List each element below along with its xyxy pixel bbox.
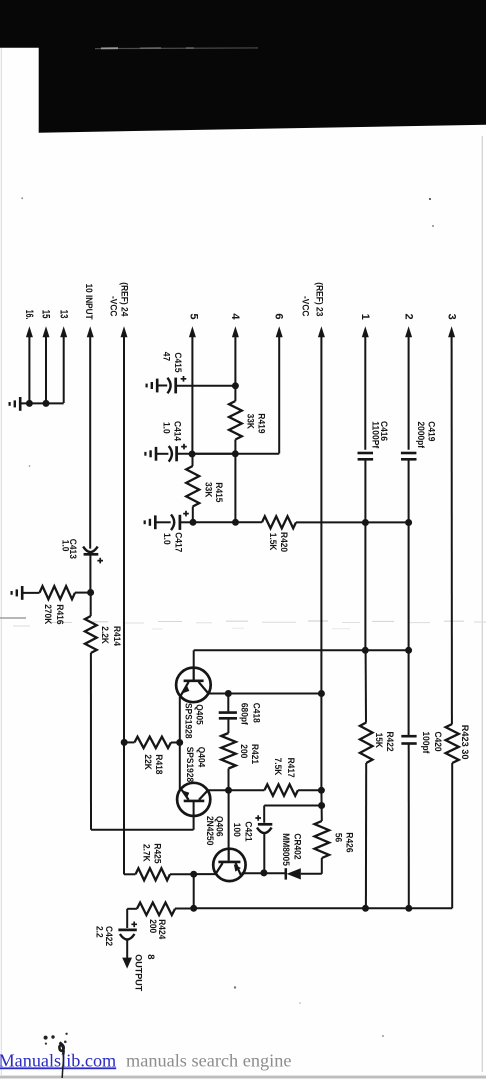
capacitor C419 plate 2 [401, 458, 417, 461]
wire pin4 node down [234, 454, 236, 523]
wire rail mid [320, 694, 322, 791]
junction collector/C418 [225, 690, 232, 697]
svg-text:C415: C415 [172, 352, 183, 373]
C422 plus sign [131, 922, 137, 928]
diode CR402 [285, 868, 288, 879]
transistor Q406 [213, 849, 245, 881]
capacitor C414 curved plate [169, 446, 172, 462]
svg-text:(REF) 24: (REF) 24 [118, 282, 129, 317]
svg-text:C422: C422 [103, 926, 114, 946]
capacitor C417 straight plate [179, 515, 182, 530]
capacitor C422 straight plate [118, 929, 136, 932]
wire to C422 [126, 909, 128, 928]
wire node to R422 [365, 650, 367, 722]
wire to Q404 base [91, 829, 194, 831]
resistor R418 zigzag [135, 737, 172, 748]
wire R425 to collector node [170, 873, 194, 875]
C417 plus sign [183, 511, 189, 517]
resistor R415 zigzag [186, 466, 199, 507]
wire R416 to input node [75, 592, 91, 594]
capacitor C415 curved plate [167, 378, 170, 394]
wire Q405 base lead up [193, 650, 195, 667]
wire pin4 to R419 [234, 386, 236, 401]
svg-text:1.5K: 1.5K [267, 533, 278, 551]
wire to C418 [227, 694, 229, 712]
resistor R414 zigzag [85, 616, 97, 653]
wire R419 to node [234, 440, 236, 454]
pin 15 arrow [43, 326, 50, 337]
capacitor C420 plate 2 [401, 742, 416, 745]
resistor R426 zigzag [315, 821, 330, 858]
junction R421/Q406 base [225, 787, 232, 794]
pin 1 arrow [362, 326, 369, 337]
wire down to C421 [263, 806, 265, 823]
junction rail/R418 [121, 739, 128, 746]
svg-text:C419: C419 [425, 421, 436, 441]
wire to CR402 [264, 872, 285, 874]
wire collector node down [193, 874, 195, 908]
wire C421 to emitter node [263, 832, 265, 873]
wire Q406 base lead [228, 790, 230, 848]
wire bottom rail [194, 907, 453, 909]
junction pin4/pin6/C414 node [232, 450, 239, 457]
junction bottom rail/pin2 line [405, 905, 412, 912]
wire R415 to node [192, 507, 194, 523]
svg-text:C421: C421 [242, 821, 253, 842]
wire node to R420 [193, 521, 262, 523]
svg-text:3: 3 [445, 314, 457, 320]
wire Q406 emitter right [241, 872, 264, 874]
svg-text:2: 2 [402, 314, 414, 320]
wire emitter line to Q404 [179, 743, 181, 791]
wire C422 to output arrow [126, 939, 128, 958]
svg-text:2.2: 2.2 [93, 926, 104, 938]
junction emitter/C421/diode [260, 869, 267, 876]
wire rail to R426 [321, 806, 323, 822]
wire py650 to pins 1,2 [194, 649, 409, 651]
pin 2 arrow [405, 326, 412, 337]
wire rail to C421 node [320, 790, 322, 805]
pin 16 arrow [26, 326, 33, 337]
wire R418 to emitter line [171, 742, 180, 744]
svg-text:10 INPUT: 10 INPUT [83, 284, 94, 320]
junction pin15/ground wire [43, 400, 50, 407]
junction C414/pin5/R415 [189, 451, 196, 458]
svg-text:MM8005: MM8005 [280, 833, 291, 866]
svg-text:-VCC: -VCC [108, 296, 119, 317]
capacitor C421 straight plate [258, 823, 272, 826]
junction pin2/collector wire [405, 647, 412, 654]
capacitor C420 plate 1 [401, 735, 416, 738]
junction R420 wire/pin2 [405, 519, 412, 526]
wire Q405 collector to rail [208, 693, 321, 695]
wire Q406 collector left [194, 873, 216, 875]
capacitor C416 plate 1 [358, 452, 374, 455]
bottom scan edge [0, 1076, 486, 1079]
svg-text:OUTPUT: OUTPUT [132, 954, 143, 991]
svg-text:2000pf: 2000pf [415, 422, 426, 449]
svg-text:33K: 33K [245, 414, 256, 429]
svg-text:Q404: Q404 [195, 747, 206, 768]
junction R418/emitter line [176, 739, 183, 746]
junction C417/R415 node [190, 519, 197, 526]
resistor R417 zigzag [265, 784, 299, 795]
svg-text:C420: C420 [432, 732, 443, 752]
wire pin2 lead [408, 333, 410, 450]
svg-text:C418: C418 [251, 703, 262, 724]
C413 plus sign [97, 558, 103, 564]
wire R423 to bottom rail corner [451, 763, 453, 908]
svg-text:C414: C414 [171, 421, 182, 442]
wire C416 down to node [364, 459, 366, 650]
svg-text:100: 100 [231, 823, 242, 837]
wire ground to C414 [156, 453, 168, 455]
svg-text:8: 8 [145, 954, 156, 960]
junction rail/C421 wire [318, 802, 325, 809]
svg-text:47: 47 [161, 352, 172, 361]
wire -VCC rail (REF 23) upper [320, 333, 322, 694]
left page edge line [0, 48, 2, 1075]
junction R425/Q406 collector [190, 871, 197, 878]
wire node to pin6 corner [193, 453, 280, 455]
svg-text:R417: R417 [285, 758, 296, 778]
pen squiggle mark [59, 1043, 63, 1055]
wire R422 to bottom rail [365, 763, 367, 908]
capacitor C418 plate 2 [219, 717, 237, 720]
wire pin3 lead [451, 333, 453, 724]
transistor Q405 [176, 668, 211, 703]
wire pin10 input lead [89, 333, 91, 549]
svg-text:-VCC: -VCC [299, 296, 310, 317]
black scan band at top [0, 0, 486, 133]
ground G3 (C414) [155, 447, 158, 461]
svg-text:1.0: 1.0 [161, 533, 172, 545]
pin 4 arrow [232, 326, 239, 337]
wire R424 to node [175, 908, 194, 910]
svg-text:R416: R416 [54, 604, 65, 624]
capacitor C413 curved plate [83, 547, 98, 553]
junction pin1/collector wire [362, 647, 369, 654]
svg-text:2.7K: 2.7K [141, 844, 152, 862]
capacitor C417 curved plate [171, 515, 174, 531]
wire C419 down to C420 [408, 459, 410, 735]
capacitor C422 curved plate [120, 934, 135, 940]
svg-text:1: 1 [359, 314, 371, 320]
resistor R423 zigzag [446, 724, 459, 763]
svg-text:200: 200 [238, 744, 249, 758]
junction input node (R416/R414) [87, 589, 94, 596]
wire ground to C415 [157, 385, 167, 387]
svg-text:16.: 16. [23, 310, 35, 320]
svg-text:100pf: 100pf [420, 732, 431, 755]
capacitor C416 plate 2 [358, 458, 374, 461]
svg-text:4: 4 [229, 313, 241, 320]
svg-text:5: 5 [188, 313, 200, 319]
svg-text:22K: 22K [142, 754, 153, 769]
svg-text:C416: C416 [378, 421, 389, 441]
svg-text:Manualslib.com: Manualslib.com [0, 1050, 116, 1070]
svg-text:R423 30: R423 30 [459, 725, 470, 760]
right page edge line [481, 136, 483, 1072]
svg-text:(REF) 23: (REF) 23 [314, 282, 325, 316]
junction C415/pin4 [232, 382, 239, 389]
svg-text:R421: R421 [249, 744, 260, 765]
junction collector/rail [318, 690, 325, 697]
wire ground to R416 [22, 592, 39, 594]
junction pin16/ground wire [26, 400, 33, 407]
resistor R424 zigzag [137, 903, 175, 916]
svg-text:R424: R424 [156, 919, 167, 940]
svg-text:6: 6 [273, 313, 285, 319]
wire CR402 to rail corner [301, 873, 322, 875]
ground G4 (C417) [154, 515, 157, 529]
C414 plus sign [181, 444, 187, 450]
wire C420 to bottom rail [408, 744, 410, 909]
wire R414 down [90, 653, 92, 830]
svg-text:Q405: Q405 [194, 704, 205, 725]
capacitor C415 straight plate [174, 378, 177, 394]
wire C414 to node [178, 453, 236, 455]
junction R420 wire/pin1 [362, 519, 369, 526]
capacitor C419 plate 1 [401, 452, 417, 455]
wire R424 left [127, 908, 137, 910]
svg-text:manuals search engine: manuals search engine [126, 1050, 291, 1070]
resistor R419 zigzag [229, 401, 242, 440]
svg-text:SPS1928: SPS1928 [184, 747, 195, 783]
pin 24 arrow [121, 326, 128, 337]
wire Q405 emitter down [179, 697, 181, 743]
svg-text:33K: 33K [203, 482, 214, 497]
wire ground to C417 [155, 521, 170, 523]
resistor R425 zigzag [136, 868, 171, 880]
svg-text:2.2K: 2.2K [99, 626, 110, 644]
ground G1 (pins 16/15/13) [19, 397, 22, 411]
wire pin13 lead [63, 333, 65, 403]
svg-text:56: 56 [332, 833, 343, 842]
resistor R422 zigzag [360, 723, 373, 764]
svg-text:270K: 270K [42, 604, 53, 624]
junction bottom rail left [190, 905, 197, 912]
pin 23 arrow [318, 326, 325, 337]
wire Q404 collector row [208, 789, 265, 791]
grey dotted scan artifact band [0, 617, 26, 619]
wire pin5 lead [191, 333, 193, 454]
grey seam streak inside band [95, 47, 258, 50]
wire -VCC rail (REF 24) [123, 333, 125, 874]
ground G2 (C415) [156, 379, 159, 393]
wire rail corner to R425 [124, 873, 136, 875]
wire C418 to R421 [227, 718, 229, 733]
svg-text:R415: R415 [213, 482, 224, 503]
wire R420 to pin2 line [296, 521, 409, 523]
svg-text:7.5K: 7.5K [272, 758, 283, 776]
wire R417 to rail [298, 789, 321, 791]
wire pin6 lead [278, 333, 280, 454]
pin 13 arrow [60, 326, 67, 337]
ground G5 (R416) [21, 586, 24, 600]
resistor R421 zigzag [221, 733, 236, 769]
wire C415 to pin4 line [177, 385, 236, 387]
wire R421 to collector node [228, 769, 230, 791]
C415 plus sign [181, 376, 187, 382]
output arrow [122, 958, 132, 969]
capacitor C418 plate 1 [219, 711, 237, 714]
resistor R416 zigzag [40, 586, 76, 599]
wire pin16 lead [28, 333, 30, 403]
junction collector row/rail [318, 787, 325, 794]
pin 6 arrow [276, 326, 283, 337]
svg-text:15: 15 [40, 310, 52, 319]
wire C417 to node [181, 521, 193, 523]
wire C413 to R414 node [89, 554, 91, 592]
C421 plus sign [255, 815, 261, 821]
svg-text:R420: R420 [278, 532, 289, 552]
capacitor C413 straight plate [84, 553, 99, 556]
junction bottom rail/pin1 line [362, 905, 369, 912]
wire node to R415 [192, 454, 194, 466]
pin 5 arrow [189, 326, 196, 337]
svg-text:15K: 15K [373, 733, 384, 748]
svg-text:R425: R425 [151, 843, 162, 864]
svg-text:13: 13 [57, 310, 69, 319]
junction pin4 bottom [232, 519, 239, 526]
wire rail to R418 [124, 741, 134, 743]
svg-text:R422: R422 [384, 732, 395, 752]
watermark link ManualsLib.com [0, 1050, 291, 1070]
svg-text:C417: C417 [173, 532, 184, 552]
svg-text:Q406: Q406 [213, 816, 224, 837]
svg-text:SPS1928: SPS1928 [183, 703, 194, 739]
wire pins16-15-13 to ground [20, 402, 64, 404]
wire pin4 lead [234, 333, 236, 386]
wire pin1 lead [364, 333, 366, 450]
svg-text:R418: R418 [153, 754, 164, 775]
svg-text:1.0: 1.0 [160, 422, 171, 434]
pin 3 arrow [448, 326, 455, 337]
wire node to R414 [90, 593, 92, 617]
svg-text:R419: R419 [255, 413, 266, 433]
svg-text:680pf: 680pf [238, 703, 249, 726]
svg-text:C413: C413 [67, 539, 78, 559]
svg-text:CR402: CR402 [292, 833, 303, 859]
svg-text:R426: R426 [343, 832, 354, 852]
wire Q404 base down [193, 801, 195, 830]
svg-text:R414: R414 [111, 626, 122, 647]
resistor R420 zigzag [262, 516, 296, 528]
wire C421 top [264, 805, 321, 807]
pin 10 arrow [87, 326, 94, 337]
transistor Q404 [177, 783, 210, 816]
wire pin15 lead [45, 333, 47, 403]
wire R426 to diode corner [321, 858, 323, 874]
capacitor C414 straight plate [175, 446, 178, 461]
capacitor C421 curved plate [257, 828, 272, 834]
